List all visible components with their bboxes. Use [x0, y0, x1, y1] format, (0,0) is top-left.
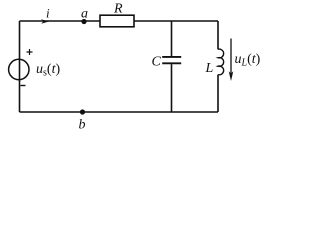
node b [80, 109, 85, 114]
svg-text:uL(t): uL(t) [235, 52, 261, 69]
svg-text:a: a [81, 6, 88, 21]
wire capacitor branch lower [171, 64, 173, 112]
svg-text:us(t): us(t) [36, 62, 60, 79]
current arrow i [41, 19, 49, 24]
svg-text:R: R [113, 2, 123, 17]
resistor R [100, 15, 134, 27]
capacitor C plates [162, 57, 181, 63]
minus polarity mark [21, 85, 26, 87]
wire top right segment [134, 20, 218, 22]
wire right vertical lower [217, 75, 219, 112]
node a [81, 19, 86, 24]
wire left vertical [19, 21, 21, 112]
inductor L coil [218, 49, 224, 75]
svg-text:L: L [205, 61, 214, 76]
voltage source us(t) [9, 49, 61, 86]
plus polarity mark [27, 49, 33, 55]
voltage arrow uL(t) [229, 39, 261, 82]
svg-text:i: i [46, 5, 50, 20]
wire bottom [20, 111, 219, 113]
svg-text:C: C [152, 54, 162, 69]
wire top left segment [20, 20, 101, 22]
svg-text:b: b [79, 118, 86, 133]
wire right vertical upper [217, 21, 219, 49]
wire capacitor branch upper [171, 21, 173, 56]
